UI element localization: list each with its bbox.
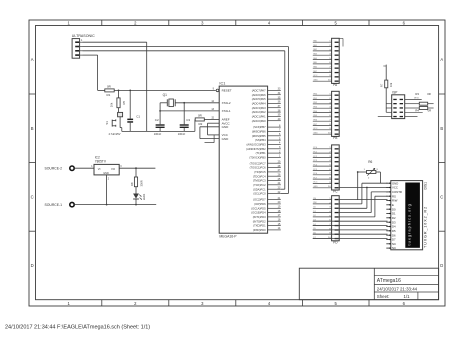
connector header PA: [313, 38, 339, 87]
svg-text:PD: PD: [333, 241, 338, 245]
svg-text:D: D: [440, 263, 443, 268]
svg-text:R1: R1: [107, 93, 111, 97]
title block text: sheet: [377, 294, 410, 299]
LED1: [133, 193, 146, 204]
svg-text:(TDO)PC4: (TDO)PC4: [253, 174, 266, 178]
wire header PD pin5 to LCD RS: [339, 196, 387, 217]
svg-text:(ADC1)PA1: (ADC1)PA1: [252, 115, 266, 119]
switch S1 pushbutton: [105, 112, 122, 131]
wire ISP pin MISO: [405, 97, 422, 99]
resistor R8 330R (LED): [130, 168, 143, 193]
svg-text:R8: R8: [130, 182, 134, 186]
svg-text:VCC: VCC: [313, 182, 318, 184]
IC1 left pin names: [222, 89, 232, 141]
svg-text:7805TV: 7805TV: [95, 160, 107, 164]
svg-text:B: B: [440, 126, 443, 131]
wire ISP pin RESET: [405, 111, 423, 113]
svg-text:S1: S1: [105, 121, 109, 125]
svg-text:XTAL2: XTAL2: [222, 101, 231, 105]
svg-text:R5: R5: [122, 100, 126, 104]
svg-text:(T0/XCK)PB0: (T0/XCK)PB0: [249, 156, 266, 160]
wire AGND to GND loop: [200, 127, 219, 139]
svg-text:R7: R7: [380, 83, 384, 87]
svg-text:1/1: 1/1: [404, 294, 411, 299]
connector ULTRASONIC label: [72, 34, 95, 38]
svg-text:C3: C3: [186, 118, 190, 122]
frame row labels A-D: [31, 57, 444, 268]
svg-text:(AIN0/INT2)PB2: (AIN0/INT2)PB2: [246, 147, 266, 151]
svg-text:(TMS)PC3: (TMS)PC3: [253, 179, 266, 183]
svg-text:(ADC2)PA2: (ADC2)PA2: [252, 110, 266, 114]
resistor R2 0R (AREF): [195, 113, 219, 131]
svg-text:100nF: 100nF: [178, 132, 186, 136]
IC1 port PB pins: [246, 124, 281, 159]
wire header PD pin1 to LCD R/W: [339, 199, 387, 201]
svg-text:IC1: IC1: [219, 81, 225, 85]
wire LCD D3 row: [313, 220, 388, 222]
wire reset net to IC1 RESET: [114, 90, 216, 92]
svg-text:C: C: [31, 194, 34, 199]
resistor R4 0R (MOSI): [405, 107, 434, 113]
svg-text:0R: 0R: [427, 92, 431, 96]
wire power loop stub: [205, 135, 215, 143]
svg-text:GND: GND: [222, 137, 230, 141]
svg-text:330R: 330R: [140, 180, 144, 186]
IC1 value label MEGA16-P: [219, 235, 237, 239]
svg-text:(OC1B)PD4: (OC1B)PD4: [251, 211, 266, 215]
title block text: date: [377, 286, 418, 291]
svg-text:(INT1)PD3: (INT1)PD3: [253, 215, 266, 219]
wire ULTRASONIC pin2 to PC0: [83, 47, 289, 194]
svg-text:R3: R3: [415, 92, 419, 96]
bottom caption: [5, 325, 150, 331]
wire ULTRASONIC pin1 to GND rail vertical: [83, 42, 147, 131]
svg-text:GND: GND: [103, 172, 109, 175]
svg-text:C2: C2: [155, 118, 159, 122]
svg-text:A: A: [440, 57, 443, 62]
svg-text:VI: VI: [98, 167, 101, 171]
svg-text:(ICP)PD6: (ICP)PD6: [254, 202, 266, 206]
resistor R1 0R (reset series): [105, 85, 114, 98]
svg-text:PC: PC: [333, 190, 338, 194]
svg-text:Q1: Q1: [163, 93, 167, 97]
pot pin marks: [364, 169, 379, 179]
wire pot right down: [376, 172, 381, 183]
svg-text:RW: RW: [313, 202, 316, 204]
capacitor C1 4.7uF/25V (reset): [109, 90, 141, 135]
svg-text:ISP: ISP: [392, 91, 397, 95]
svg-text:(SDA)PC1: (SDA)PC1: [253, 187, 266, 191]
svg-text:(ADC3)PA3: (ADC3)PA3: [252, 106, 266, 110]
svg-text:E: E: [392, 203, 394, 207]
svg-text:TUXGR_16X2_R2: TUXGR_16X2_R2: [424, 206, 428, 248]
svg-text:XTAL1: XTAL1: [222, 109, 231, 113]
svg-text:R2: R2: [199, 122, 203, 126]
capacitor C2 100nF: [154, 118, 165, 136]
svg-text:(MISO)PB6: (MISO)PB6: [252, 130, 266, 134]
svg-text:10k: 10k: [110, 102, 114, 107]
title block: [299, 268, 438, 300]
regulator IC2 7805TV: [91, 156, 122, 205]
svg-text:(AIN1/OC0)PB3: (AIN1/OC0)PB3: [246, 143, 266, 147]
resistor R5 10k (reset pulldown): [110, 90, 127, 112]
pad SOURCE-2: [45, 166, 95, 171]
svg-text:(RXD)PD0: (RXD)PD0: [253, 228, 266, 232]
svg-text:Sheet:: Sheet:: [377, 294, 390, 299]
svg-text:RESET: RESET: [222, 89, 232, 93]
svg-text:100nF: 100nF: [154, 132, 162, 136]
svg-text:B: B: [31, 126, 34, 131]
ground rail (reset/crystal area): [122, 130, 195, 132]
IC1 port PD pins: [251, 197, 281, 232]
frame column labels 1-6: [68, 21, 406, 306]
crystal Q1: [163, 93, 176, 106]
svg-text:(ADC6)PA6: (ADC6)PA6: [252, 93, 266, 97]
IC1 left pin numbers: [211, 88, 214, 120]
pad SOURCE-1: [45, 202, 157, 207]
svg-text:ATmega16: ATmega16: [377, 278, 401, 284]
IC1 port PA pins: [252, 88, 281, 123]
wire ULTRASONIC pin3 to PC1: [83, 51, 285, 189]
title block text: ATmega16: [377, 278, 401, 284]
wire ULTRASONIC pin4 down to reset line: [83, 55, 98, 90]
svg-text:GND: GND: [313, 186, 318, 188]
wire LCD D7 row: [313, 238, 388, 240]
svg-text:24/10/2017 21:34:44 F:\EAGLE\: 24/10/2017 21:34:44 F:\EAGLE\ATmega16.sc…: [5, 325, 150, 331]
svg-text:(TCK)PC2: (TCK)PC2: [253, 183, 266, 187]
svg-text:SOURCE-2: SOURCE-2: [45, 167, 63, 171]
wire VCC bus to LCD VCC: [340, 187, 388, 189]
svg-text:(ADC4)PA4: (ADC4)PA4: [252, 102, 266, 106]
svg-text:(SS)PB4: (SS)PB4: [255, 138, 266, 142]
svg-text:MEGA16-P: MEGA16-P: [219, 235, 237, 239]
svg-text:MISO: MISO: [414, 97, 420, 99]
svg-text:(ADC7)PA7: (ADC7)PA7: [252, 89, 266, 93]
wire AVCC to VCC loop: [208, 123, 220, 135]
svg-text:(SCL)PC0: (SCL)PC0: [253, 192, 266, 196]
svg-text:(OC1A)PD5: (OC1A)PD5: [251, 206, 266, 210]
svg-text:(SCK)PB7: (SCK)PB7: [253, 125, 266, 129]
svg-text:(ADC0)PA0: (ADC0)PA0: [252, 119, 266, 123]
svg-text:GND: GND: [313, 133, 318, 135]
svg-text:ULTRASONIC: ULTRASONIC: [72, 34, 95, 38]
svg-text:GND: GND: [313, 80, 318, 82]
wire crystal left to C2 and XTAL1: [159, 103, 219, 125]
svg-text:GND: GND: [222, 125, 230, 129]
svg-text:D2: D2: [392, 216, 396, 220]
svg-text:(MOSI)PB5: (MOSI)PB5: [252, 134, 266, 138]
frame inner border: [36, 26, 439, 300]
wire header PD pin2 to LCD GND: [339, 183, 387, 204]
svg-text:C1: C1: [136, 115, 140, 119]
connector header PD: [313, 196, 339, 245]
svg-text:VCC: VCC: [313, 75, 318, 77]
connector ISP 2x5: [392, 91, 405, 119]
svg-text:(TOSC1)PC6: (TOSC1)PC6: [250, 166, 266, 170]
wire LCD D5 row: [313, 229, 388, 231]
wire LCD D6 row: [313, 233, 388, 235]
svg-text:(OC2)PD7: (OC2)PD7: [253, 198, 266, 202]
IC1 ref label: [219, 81, 225, 85]
wire ISP pin GND right: [405, 116, 418, 118]
wire LCD D4 row: [313, 225, 388, 227]
wire pot left to header row: [357, 171, 367, 200]
op IC1 box MEGA16-P: [219, 86, 267, 233]
wire header PD pin3 to bus VCC line: [339, 187, 368, 209]
svg-text:(TOSC2)PC7: (TOSC2)PC7: [250, 161, 266, 165]
svg-text:(ADC5)PA5: (ADC5)PA5: [252, 97, 266, 101]
display DIS1 TUXGR_16X2_R2: [386, 181, 427, 251]
header wire net labels: [313, 40, 318, 239]
resistor R3 0R (SCK): [405, 92, 434, 105]
svg-text:4.7uF/25V: 4.7uF/25V: [109, 132, 121, 136]
connector header PC: [313, 145, 339, 194]
frame outer border: [29, 20, 445, 306]
svg-text:PB: PB: [333, 136, 337, 140]
svg-text:VCC: VCC: [392, 186, 398, 190]
svg-text:0R: 0R: [428, 109, 432, 113]
capacitor C3 100nF: [178, 118, 191, 136]
svg-text:24/10/2017 21:33:44: 24/10/2017 21:33:44: [377, 286, 418, 291]
svg-text:(TDI)PC5: (TDI)PC5: [254, 170, 266, 174]
frame column ticks top/bottom: [102, 20, 369, 306]
wire VO output: [119, 167, 155, 169]
svg-text:D: D: [31, 263, 34, 268]
svg-text:10k: 10k: [389, 82, 393, 87]
svg-text:(T1)PB1: (T1)PB1: [256, 151, 267, 155]
resistor R7 10k (ISP pullup): [380, 65, 393, 113]
connector header PB: [313, 91, 339, 140]
svg-text:A: A: [31, 57, 34, 62]
wire reset net left segment: [98, 89, 105, 91]
wire crystal right to XTAL2 and C3: [175, 102, 219, 124]
wire header PD pin4 to LCD CONTR: [339, 192, 387, 213]
svg-text:NC: NC: [392, 246, 396, 250]
connector ULTRASONIC body: [72, 39, 83, 59]
svg-text:(TXD)PD1: (TXD)PD1: [253, 224, 266, 228]
IC1 port PC pins: [250, 161, 281, 196]
wire stub at PA header top: [339, 38, 343, 46]
svg-text:tuxgraphics.org: tuxgraphics.org: [407, 203, 412, 245]
svg-text:VCC: VCC: [313, 128, 318, 130]
svg-text:LED1: LED1: [142, 193, 146, 200]
frame row ticks left/right: [29, 94, 445, 231]
svg-text:DIS1: DIS1: [424, 182, 428, 190]
potentiometer R6 (contrast): [367, 160, 376, 176]
svg-text:SOURCE-1: SOURCE-1: [45, 203, 63, 207]
svg-text:R6: R6: [368, 160, 372, 164]
wires ISP left pins: [378, 104, 392, 117]
svg-text:(INT0)PD2: (INT0)PD2: [253, 219, 266, 223]
svg-text:D5: D5: [392, 229, 396, 233]
svg-text:C: C: [440, 194, 443, 199]
IC1 RESET inversion bubble: [216, 89, 219, 92]
